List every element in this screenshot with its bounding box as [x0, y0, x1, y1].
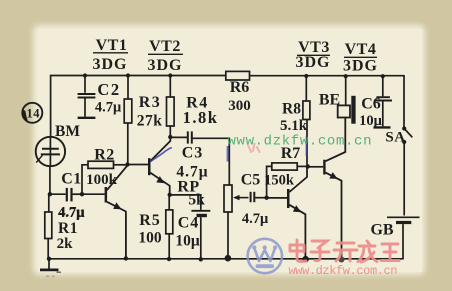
ground: [40, 259, 61, 276]
svg-text:C1: C1: [61, 171, 82, 188]
node A junction: [48, 192, 52, 196]
wire top rail left segment: [51, 75, 226, 77]
pen mark blue on R8 lead: [305, 137, 307, 157]
svg-text:www.dzkfw.com.cn: www.dzkfw.com.cn: [289, 264, 398, 278]
resistor R7: [264, 145, 308, 198]
pen mark blue on RP feed: [227, 146, 229, 162]
capacitor C2: [78, 73, 122, 117]
svg-text:R8: R8: [282, 101, 301, 118]
svg-text:4.7μ: 4.7μ: [242, 211, 269, 227]
svg-text:C6: C6: [361, 96, 381, 113]
badge circle 14: [22, 103, 42, 123]
label VT1/3DG: [93, 37, 129, 73]
svg-text:14: 14: [27, 106, 41, 120]
svg-text:100: 100: [138, 230, 162, 247]
wire BM to node A: [49, 166, 51, 194]
wire top rail right segment: [250, 75, 405, 77]
node E junction: [264, 196, 268, 200]
svg-text:10μ: 10μ: [359, 113, 383, 129]
node D junction: [168, 135, 172, 139]
resistor R1: [45, 194, 78, 259]
capacitor C5: [241, 172, 269, 228]
svg-text:2k: 2k: [57, 236, 74, 252]
potentiometer RP: [177, 179, 248, 262]
watermark hanzi zi: [311, 241, 329, 261]
node F junction: [306, 164, 310, 168]
svg-text:GB: GB: [370, 222, 393, 239]
watermark logo W: [248, 239, 282, 273]
microphone BM: [36, 123, 81, 166]
resistor R3: [124, 73, 162, 164]
battery GB: [370, 217, 419, 258]
svg-text:150k: 150k: [264, 173, 295, 189]
svg-text:BE: BE: [319, 92, 340, 109]
resistor R2: [82, 147, 128, 195]
svg-text:3DG: 3DG: [343, 58, 378, 75]
svg-text:1.8k: 1.8k: [183, 108, 219, 127]
label VT3/3DG: [296, 39, 331, 71]
wire right drop to switch: [403, 76, 405, 127]
watermark hanzi kai: [334, 243, 357, 261]
svg-text:5.1k: 5.1k: [280, 118, 308, 134]
svg-text:4.7μ: 4.7μ: [58, 205, 85, 221]
svg-text:C3: C3: [182, 145, 204, 162]
svg-text:3DG: 3DG: [93, 56, 128, 73]
svg-text:R2: R2: [94, 147, 115, 164]
resistor R4: [167, 73, 219, 137]
transistor VT1: [82, 165, 128, 260]
node C junction: [125, 162, 129, 166]
svg-text:C4: C4: [178, 215, 200, 232]
white panel: [33, 25, 425, 275]
resistor R8: [280, 74, 310, 166]
svg-text:10μ: 10μ: [175, 233, 200, 250]
watermark hanzi wang: [381, 244, 399, 261]
svg-text:3DG: 3DG: [296, 54, 331, 71]
svg-text:BM: BM: [55, 123, 80, 140]
svg-text:4.7μ: 4.7μ: [95, 100, 122, 116]
transistor VT4: [308, 118, 346, 263]
label VT4/3DG: [343, 41, 378, 74]
pen mark blue on VT2 collector: [151, 148, 172, 162]
resistor R5: [138, 195, 172, 261]
svg-text:R5: R5: [139, 212, 161, 229]
capacitor C3: [170, 131, 229, 185]
watermark red fragment: [248, 144, 260, 153]
svg-text:R6: R6: [230, 79, 250, 96]
watermark hanzi fa: [358, 241, 377, 262]
svg-text:VT4: VT4: [345, 41, 377, 58]
capacitor C6: [359, 74, 392, 129]
transistor VT3: [267, 166, 309, 262]
transistor VT2: [128, 137, 172, 197]
earphone BE: [319, 74, 356, 124]
wire left drop to microphone: [50, 76, 52, 138]
node rail-left junction: [47, 257, 51, 261]
svg-text:27k: 27k: [137, 113, 163, 130]
node B junction: [80, 192, 84, 196]
wire bottom rail: [49, 258, 403, 260]
svg-text:R1: R1: [58, 220, 78, 237]
resistor R6: [226, 71, 251, 114]
svg-text:VT1: VT1: [96, 37, 128, 54]
svg-text:VT2: VT2: [149, 38, 181, 55]
label VT2/3DG: [148, 38, 184, 74]
svg-text:300: 300: [228, 98, 251, 114]
svg-text:SA: SA: [385, 130, 405, 146]
svg-text:3DG: 3DG: [148, 57, 183, 74]
svg-text:C2: C2: [97, 80, 120, 99]
watermark hanzi dian: [290, 240, 306, 262]
svg-text:C5: C5: [241, 172, 261, 189]
svg-text:100k: 100k: [86, 172, 118, 188]
svg-text:R3: R3: [139, 94, 162, 111]
capacitor C1: [50, 171, 86, 221]
switch SA: [385, 126, 412, 215]
capacitor C4: [170, 195, 211, 262]
